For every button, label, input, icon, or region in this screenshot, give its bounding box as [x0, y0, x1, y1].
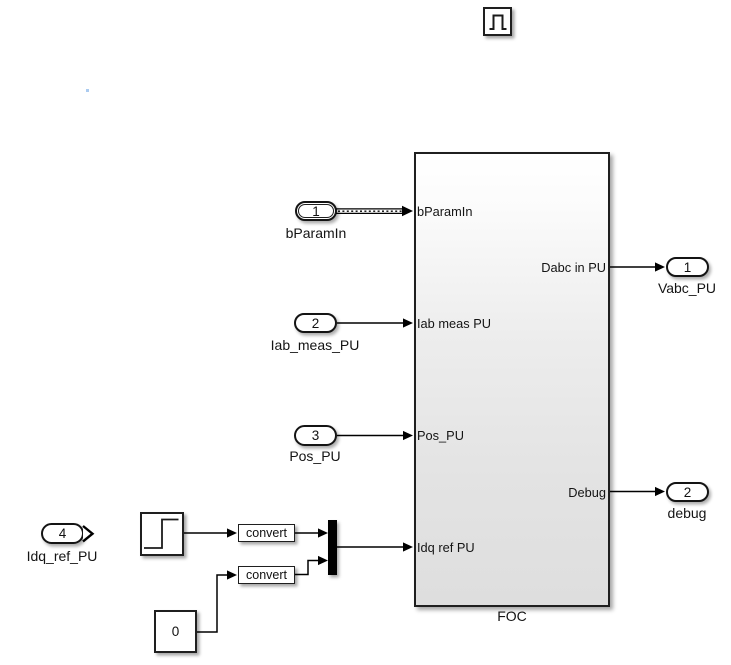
wire convert2 to mux	[295, 556, 328, 575]
FOC port label bParamIn	[417, 204, 472, 219]
wire step to convert1	[184, 528, 237, 537]
wire inport3 to FOC	[337, 431, 413, 440]
FOC port label Dabc in PU	[541, 260, 606, 275]
constant 0 block	[154, 610, 197, 653]
pulse generator block	[483, 7, 512, 36]
outport 1 Vabc_PU	[666, 257, 709, 277]
inport 3 Pos_PU	[294, 425, 337, 446]
FOC port label Debug	[568, 485, 606, 500]
inport 1 bParamIn (bus, double outline)	[295, 201, 337, 221]
subsystem FOC	[414, 152, 610, 607]
outport 2 debug	[666, 482, 709, 502]
wire FOC to outport2	[610, 487, 665, 496]
wire convert1 to mux	[295, 528, 328, 537]
inport 2 Iab_meas_PU	[294, 313, 337, 333]
wire constant0 to convert2	[197, 570, 237, 632]
step block	[140, 512, 184, 556]
mux	[328, 520, 337, 575]
convert block 2	[238, 566, 295, 584]
unconnected arrow on inport4	[83, 526, 93, 541]
wire mux to FOC	[337, 542, 413, 551]
FOC port label Pos_PU	[417, 428, 464, 443]
FOC port label Idq ref PU	[417, 540, 475, 555]
FOC block name	[414, 608, 610, 624]
FOC port label Iab meas PU	[417, 316, 491, 331]
convert block 1	[238, 524, 295, 542]
bus wire inport1 to FOC	[336, 206, 413, 216]
stray blue dot	[86, 89, 89, 92]
wire inport2 to FOC	[337, 318, 413, 327]
wire FOC to outport1	[610, 262, 665, 271]
inport 4 Idq_ref_PU	[41, 523, 84, 544]
